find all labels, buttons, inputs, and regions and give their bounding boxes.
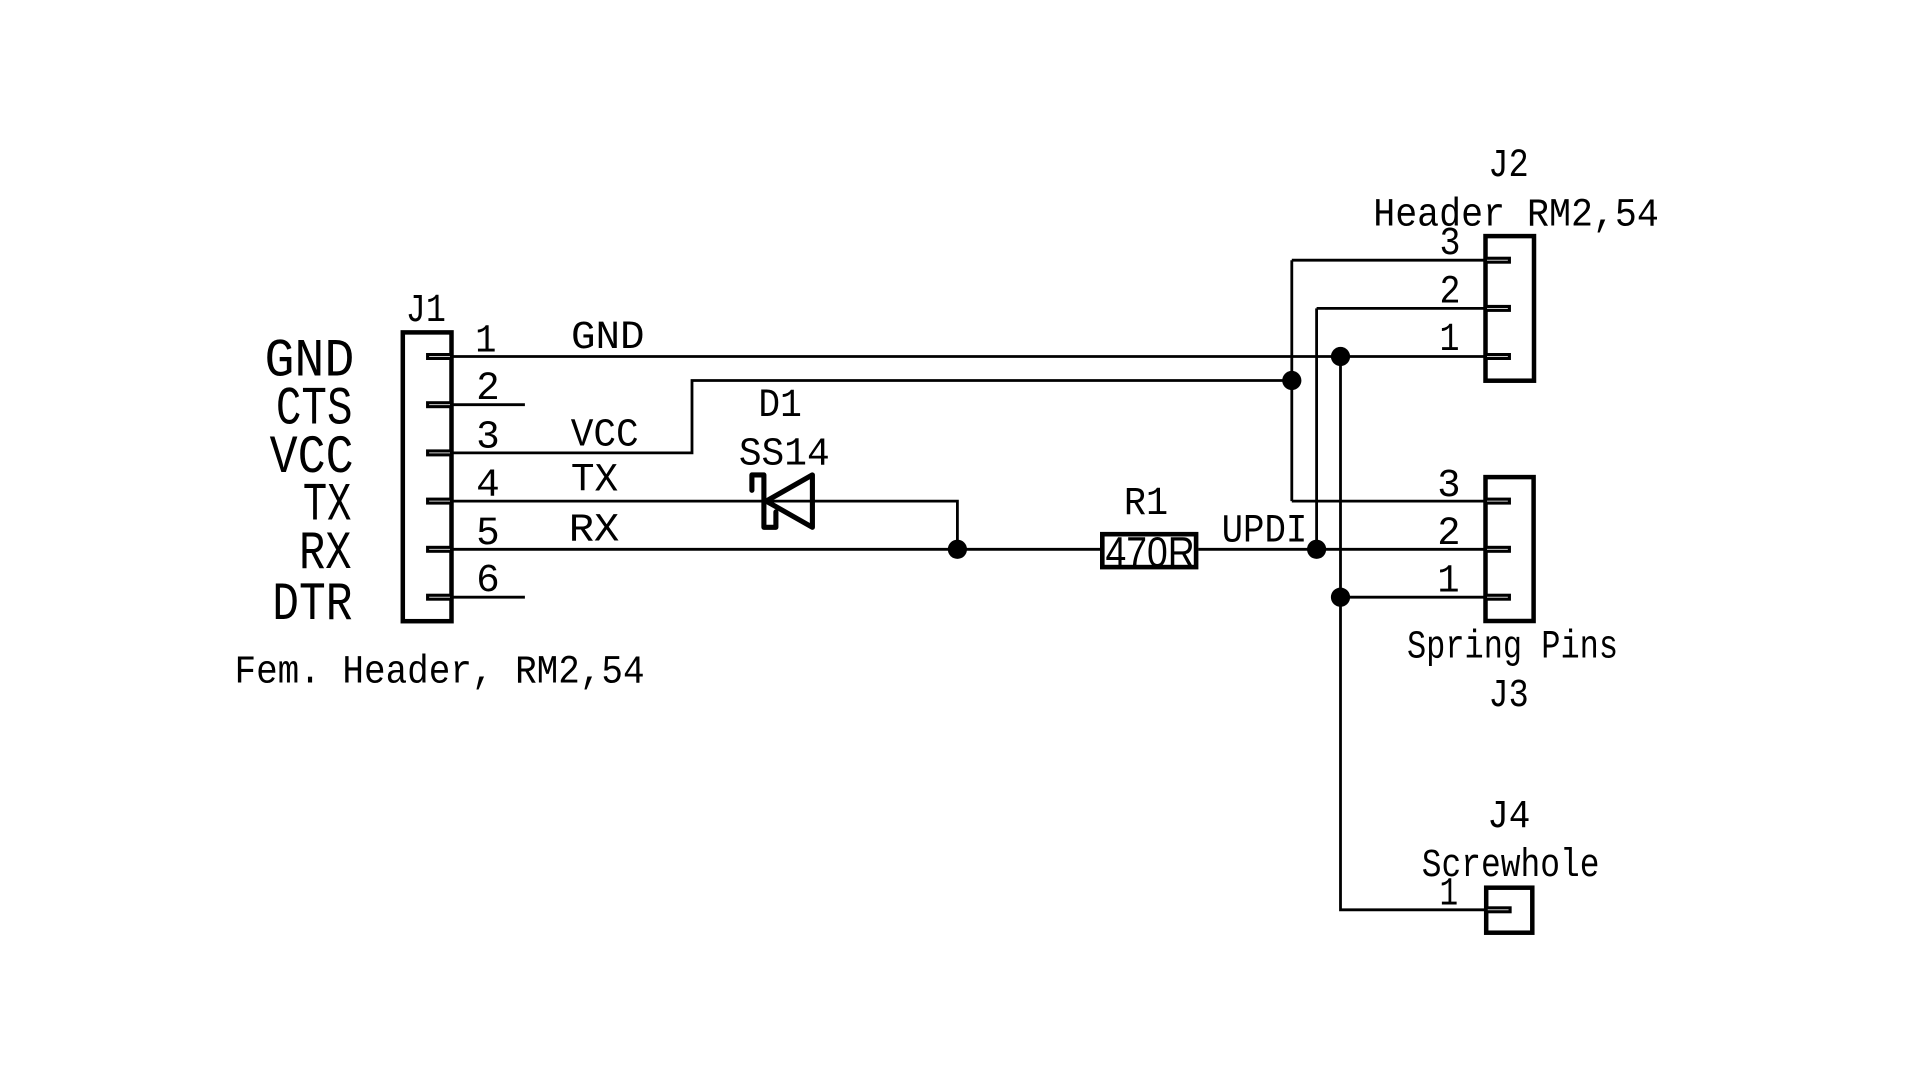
svg-text:J1: J1 xyxy=(406,289,446,334)
svg-text:RX: RX xyxy=(569,508,620,553)
svg-text:D1: D1 xyxy=(758,384,801,429)
svg-text:1: 1 xyxy=(1437,560,1459,605)
svg-text:3: 3 xyxy=(476,415,500,460)
svg-text:1: 1 xyxy=(1440,318,1460,363)
svg-text:SS14: SS14 xyxy=(739,432,830,477)
svg-text:3: 3 xyxy=(1437,464,1460,509)
svg-text:4: 4 xyxy=(476,464,500,509)
svg-text:6: 6 xyxy=(476,559,500,604)
svg-text:470R: 470R xyxy=(1106,528,1195,576)
svg-text:VCC: VCC xyxy=(571,413,639,458)
svg-text:J3: J3 xyxy=(1488,674,1528,719)
svg-text:J4: J4 xyxy=(1487,795,1530,840)
svg-text:R1: R1 xyxy=(1124,482,1168,527)
svg-text:GND: GND xyxy=(571,316,645,361)
svg-text:2: 2 xyxy=(476,367,500,412)
svg-text:Fem. Header, RM2,54: Fem. Header, RM2,54 xyxy=(235,650,645,695)
svg-text:1: 1 xyxy=(475,320,496,365)
svg-text:2: 2 xyxy=(1439,270,1460,315)
svg-text:5: 5 xyxy=(476,512,500,557)
svg-text:Spring Pins: Spring Pins xyxy=(1407,626,1618,671)
svg-text:TX: TX xyxy=(571,459,618,504)
svg-text:Header RM2,54: Header RM2,54 xyxy=(1373,193,1659,238)
svg-text:UPDI: UPDI xyxy=(1222,509,1308,554)
svg-text:J2: J2 xyxy=(1488,144,1529,189)
svg-text:2: 2 xyxy=(1437,512,1460,557)
svg-text:Screwhole: Screwhole xyxy=(1422,844,1600,889)
svg-text:DTR: DTR xyxy=(272,575,352,636)
